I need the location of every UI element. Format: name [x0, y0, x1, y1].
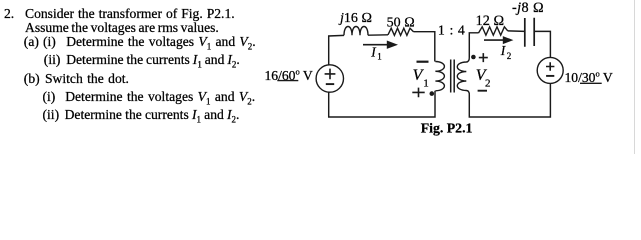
transformer core [451, 60, 455, 93]
problem text line 1 [4, 6, 14, 22]
resistor 12 [479, 27, 508, 35]
wire: resistor 12 to capacitor [508, 30, 525, 33]
voltage source Vs2 10/30 [537, 57, 563, 83]
svg-text:Fig. P2.1: Fig. P2.1 [421, 121, 473, 136]
label I2 [500, 43, 512, 61]
label I1 [370, 45, 382, 62]
svg-text:50 Ω: 50 Ω [387, 16, 415, 31]
arrow I2 [484, 36, 513, 44]
transformer T1 secondary coil [457, 57, 469, 95]
transformer T1 primary coil [435, 62, 444, 91]
polarity plus of V1 [412, 88, 424, 98]
svg-text:-j8 Ω: -j8 Ω [512, 0, 544, 16]
problem text line 4 [0, 51, 641, 53]
page edge artifact line [635, 0, 636, 154]
wire: resistor to transformer primary top corner [414, 32, 435, 62]
svg-text:1: 1 [377, 52, 382, 62]
polarity plus of V2 [479, 53, 488, 62]
label V1 [413, 67, 429, 90]
problem text line 6 [0, 88, 641, 90]
problem text line 5 [0, 70, 641, 72]
wire: right source bottom to secondary bottom [469, 83, 550, 117]
inductor j16 [344, 27, 368, 36]
polarity minus of V2 [478, 90, 487, 92]
dot primary (bottom left of primary coil) [430, 91, 435, 96]
problem text line 3 [0, 33, 641, 35]
label source 1 value 16/60 V [265, 68, 313, 84]
wire: secondary top to right loop top corner [469, 33, 478, 57]
voltage source Vs1 16/60 [316, 65, 343, 92]
wire: between inductor and resistor [368, 34, 388, 36]
svg-text:1: 1 [423, 77, 429, 89]
svg-text:1 : 4: 1 : 4 [438, 22, 466, 37]
wire: left loop top from source corner to inductor [329, 35, 344, 64]
dot secondary (top right of secondary coil) [471, 55, 476, 60]
resistor 50 [388, 28, 414, 35]
problem text line 2 [25, 20, 219, 36]
wire: capacitor to right source top [534, 31, 550, 57]
svg-text:I: I [500, 43, 507, 58]
svg-text:2: 2 [507, 51, 512, 61]
svg-text:I: I [370, 45, 377, 60]
svg-text:2: 2 [485, 78, 491, 90]
label source 2 value 10/30 V [565, 70, 613, 86]
label V2 [476, 67, 491, 90]
problem text line 7 [0, 106, 641, 108]
svg-text:12 Ω: 12 Ω [476, 13, 505, 29]
arrow I1 [363, 41, 398, 49]
svg-text:j16 Ω: j16 Ω [338, 11, 372, 26]
polarity minus of V1 [417, 61, 429, 63]
underline of angle notation 16/60 [277, 80, 298, 82]
underline of angle notation 10/30 [580, 82, 602, 84]
wire: primary coil bottom to left loop bottom [329, 91, 435, 117]
capacitor -j8 [525, 18, 534, 47]
